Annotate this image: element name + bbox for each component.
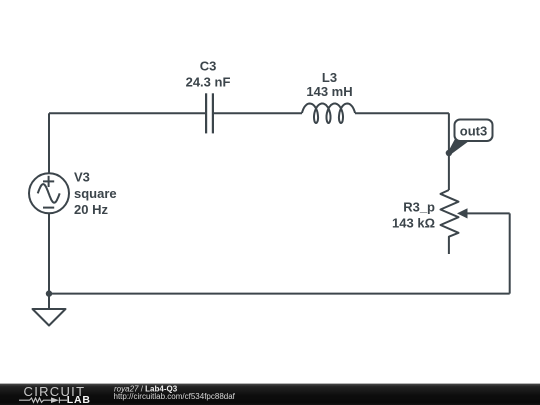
ground	[33, 294, 66, 326]
wire top middle segment	[213, 112, 302, 114]
inductor L3	[302, 104, 355, 124]
wire right vertical to potentiometer	[448, 113, 450, 190]
wire wiper horizontal	[467, 212, 510, 214]
svg-text:143 mH: 143 mH	[306, 84, 352, 99]
svg-text:V3: V3	[74, 170, 90, 185]
wire left vertical below source	[48, 213, 50, 293]
footer bar	[0, 384, 540, 405]
capacitor C3	[206, 93, 213, 133]
svg-text:24.3 nF: 24.3 nF	[186, 75, 231, 90]
node flag out3	[448, 120, 492, 155]
CircuitLab logo	[19, 384, 91, 405]
wire left vertical above source	[48, 113, 50, 173]
wire top left segment	[49, 112, 206, 114]
svg-text:C3: C3	[200, 59, 217, 74]
potentiometer R3_p	[441, 190, 459, 254]
footer credit text	[114, 384, 236, 401]
svg-text:L3: L3	[322, 70, 337, 85]
svg-text:out3: out3	[460, 123, 487, 138]
svg-text:LAB: LAB	[67, 394, 91, 405]
voltage source V3	[29, 173, 69, 213]
wiper arrow of R3_p	[457, 208, 468, 218]
junction node at ground	[46, 290, 52, 296]
svg-text:20 Hz: 20 Hz	[74, 202, 108, 217]
svg-text:square: square	[74, 186, 117, 201]
wire right lower vertical	[509, 213, 511, 293]
wire bottom horizontal	[49, 293, 510, 295]
svg-text:http://circuitlab.com/cf534fpc: http://circuitlab.com/cf534fpc88daf	[114, 392, 236, 401]
junction node at out3	[446, 150, 452, 156]
svg-text:143 kΩ: 143 kΩ	[392, 216, 435, 231]
wire top right segment	[355, 112, 449, 114]
svg-text:R3_p: R3_p	[403, 200, 435, 215]
